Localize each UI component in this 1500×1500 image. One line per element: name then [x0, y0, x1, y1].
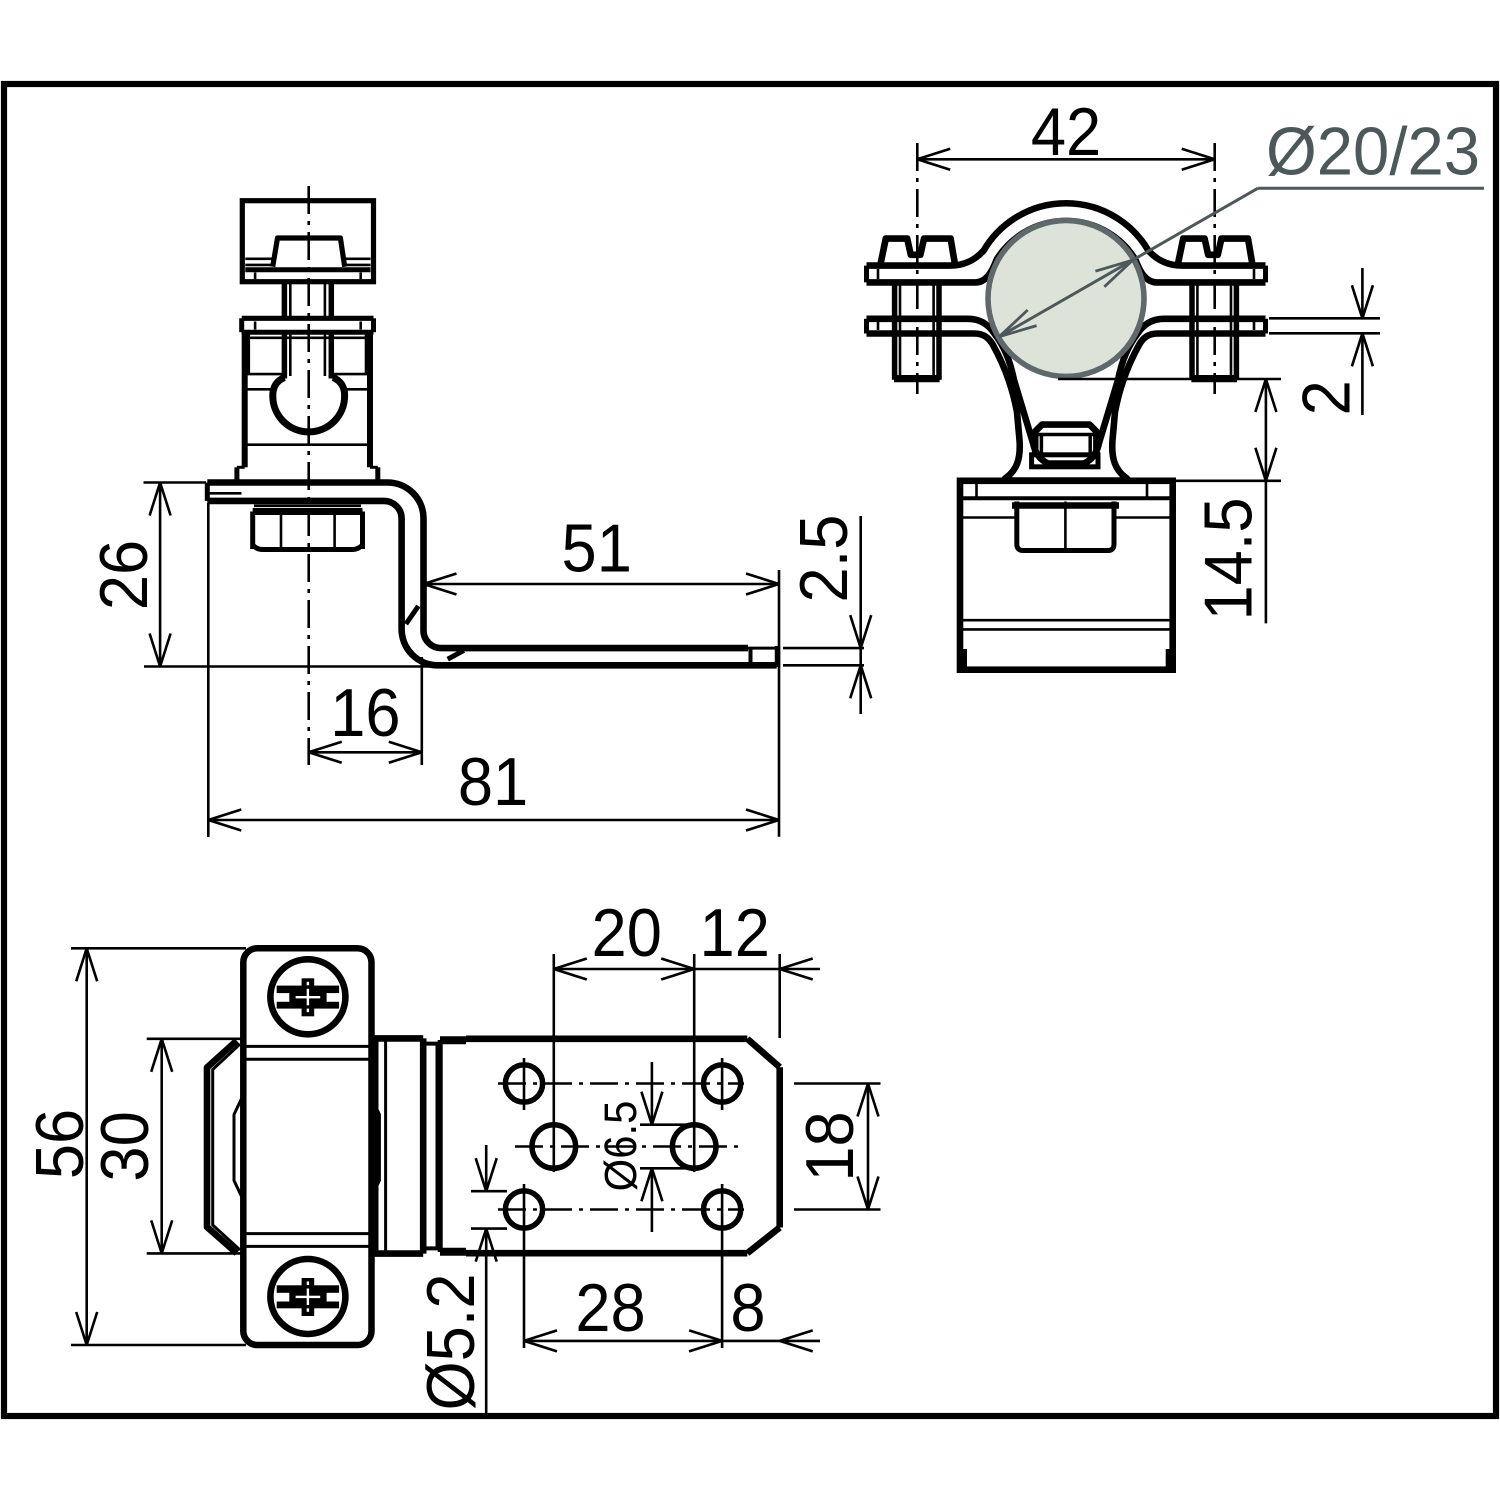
svg-text:30: 30 — [87, 1111, 163, 1181]
svg-text:Ø5.2: Ø5.2 — [413, 1273, 489, 1410]
svg-text:42: 42 — [1031, 94, 1101, 170]
svg-text:20: 20 — [592, 895, 662, 971]
svg-text:8: 8 — [730, 1270, 765, 1346]
svg-text:16: 16 — [330, 675, 400, 751]
svg-text:18: 18 — [792, 1111, 868, 1181]
svg-text:14.5: 14.5 — [1190, 497, 1266, 620]
svg-text:56: 56 — [22, 1109, 98, 1179]
svg-text:81: 81 — [458, 744, 528, 820]
svg-text:28: 28 — [575, 1270, 645, 1346]
svg-text:2.5: 2.5 — [786, 515, 862, 603]
svg-text:12: 12 — [700, 895, 770, 971]
svg-text:Ø6.5: Ø6.5 — [597, 1101, 647, 1192]
svg-text:51: 51 — [562, 510, 632, 586]
svg-text:Ø20/23: Ø20/23 — [1266, 114, 1480, 189]
svg-text:2: 2 — [1289, 380, 1365, 415]
svg-text:26: 26 — [86, 540, 162, 610]
